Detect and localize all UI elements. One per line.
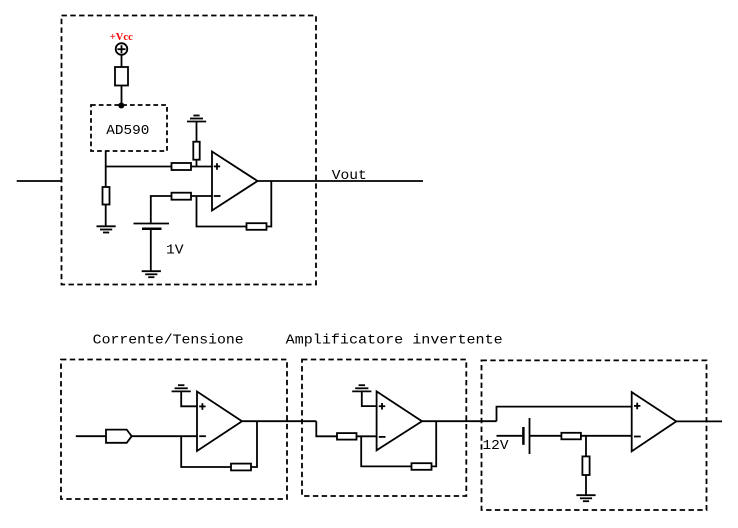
output wire stage 2 — [242, 420, 316, 422]
junction dot — [118, 103, 124, 109]
svg-text:Corrente/Tensione: Corrente/Tensione — [93, 334, 244, 349]
ground — [142, 271, 161, 277]
feedback wire (output down to R9) — [432, 421, 437, 466]
enclosure dashed box (temperature sensor stage) — [62, 16, 317, 285]
feedback wire (R7 to - input) — [181, 436, 231, 467]
wire R5 to op-amp - — [191, 195, 212, 197]
wire ground to op-amp + — [181, 391, 197, 406]
resistor R2 (shunt to ground) — [103, 187, 110, 205]
feedback wire (- node down and right) — [197, 196, 247, 227]
output wire Vout — [258, 180, 424, 182]
wire junction down to R11 — [585, 436, 587, 457]
resistor R6 (feedback) — [247, 223, 267, 230]
battery B2 12V — [523, 418, 529, 454]
feedback wire to output — [267, 181, 272, 227]
resistor R11 (to ground) — [582, 456, 589, 475]
ground — [97, 226, 116, 232]
wire R8 to op-amp - — [357, 435, 377, 437]
resistor R1 — [115, 67, 128, 86]
output wire stage 3 — [422, 420, 497, 422]
wire node A horizontal to R3 — [105, 166, 172, 168]
wire R11 to ground — [585, 475, 587, 495]
resistor R8 (series, - input) — [337, 433, 357, 440]
svg-text:1V: 1V — [166, 244, 185, 259]
svg-text:+Vcc: +Vcc — [110, 31, 133, 43]
op-amp U2 — [197, 392, 242, 452]
op-amp U3 — [377, 391, 422, 450]
wire R1 to AD590 — [121, 86, 123, 106]
input port symbol — [106, 430, 132, 443]
resistor R10 (series, - input) — [561, 433, 581, 440]
wire battery to R10 — [530, 435, 562, 437]
wire battery top to R5 (- input line) — [151, 196, 172, 223]
resistor R3 (series, + input) — [172, 163, 192, 170]
enclosure dashed box (comparator stage) — [482, 360, 707, 510]
resistor R5 (series, - input) — [172, 193, 192, 200]
input step wire to op-amp + — [497, 407, 632, 422]
input step wire to R8 — [316, 421, 337, 436]
op-amp U4 — [632, 392, 677, 451]
input lead — [76, 435, 106, 437]
+Vcc power terminal — [116, 43, 128, 55]
ground (inverted, above R4) — [187, 116, 206, 122]
wire R10 to op-amp - — [581, 435, 632, 437]
wire Vcc terminal to R1 — [121, 55, 123, 67]
wire AD590 output down — [105, 151, 107, 187]
enclosure dashed box (inverting amplifier) — [302, 360, 466, 497]
resistor R4 — [193, 142, 199, 160]
wire R3 to op-amp + — [191, 166, 212, 168]
svg-text:Amplificatore invertente: Amplificatore invertente — [286, 334, 503, 349]
wire battery stub — [497, 435, 523, 437]
wire R4 to + input node — [196, 160, 198, 167]
wire port to op-amp - — [132, 435, 197, 437]
op-amp U1 — [212, 152, 258, 211]
svg-text:AD590: AD590 — [106, 124, 149, 139]
output wire stage 4 — [676, 420, 722, 422]
ground — [576, 495, 595, 501]
ground (inverted) — [352, 385, 371, 391]
enclosure dashed box (current to voltage converter) — [61, 360, 287, 500]
svg-text:Vout: Vout — [332, 169, 367, 184]
resistor R9 (feedback) — [412, 463, 432, 470]
feedback wire (output down to R7) — [251, 421, 257, 467]
wire R2 to ground — [105, 205, 107, 227]
external lead (left stub) — [17, 180, 62, 182]
svg-text:12V: 12V — [483, 439, 510, 454]
wire battery to ground — [150, 230, 152, 271]
AD590 sensor dashed box — [91, 105, 167, 151]
feedback wire (R9 to - input) — [361, 436, 411, 466]
resistor R7 (feedback) — [231, 464, 251, 471]
wire ground to op-amp + — [362, 391, 377, 406]
ground (inverted) — [172, 385, 191, 391]
wire ground to R4 — [196, 122, 198, 142]
battery B1 1V — [134, 224, 170, 229]
